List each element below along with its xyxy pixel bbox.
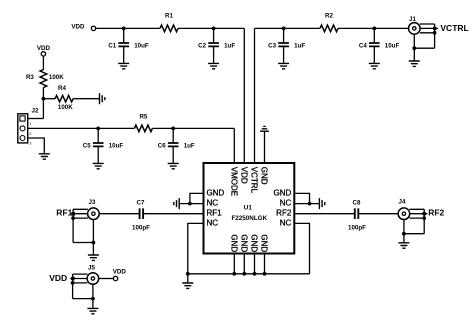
junction	[96, 126, 100, 130]
capacitor C6	[168, 128, 179, 163]
wire VMODE rail right	[152, 127, 234, 129]
junction at J4 shield lower	[422, 216, 426, 220]
svg-text:NC: NC	[280, 199, 292, 208]
ground at C4	[369, 63, 380, 68]
node VDD terminal (above R3)	[41, 52, 45, 56]
junction	[263, 272, 267, 276]
junction	[308, 202, 312, 206]
svg-text:100pF: 100pF	[132, 224, 150, 231]
svg-text:1uF: 1uF	[184, 143, 195, 150]
connector J1 body	[409, 23, 421, 35]
ground at J1	[409, 61, 420, 66]
wire	[42, 56, 44, 69]
svg-text:RF2: RF2	[276, 209, 292, 218]
svg-text:RF1: RF1	[56, 207, 72, 217]
junction	[212, 27, 216, 31]
svg-text:C6: C6	[158, 143, 166, 150]
svg-text:10uF: 10uF	[109, 143, 124, 150]
capacitor C4	[369, 28, 380, 63]
connector J4 body	[398, 208, 410, 220]
junction at J4 ground stem	[402, 232, 406, 236]
connector J1 port arrow	[434, 26, 439, 30]
svg-text:R5: R5	[139, 114, 147, 121]
junction	[242, 272, 246, 276]
svg-text:VDD: VDD	[49, 273, 67, 283]
wire	[42, 88, 44, 119]
svg-text:R1: R1	[165, 13, 173, 20]
svg-text:NC: NC	[280, 218, 292, 227]
ground at U1 top GND pin	[260, 126, 269, 131]
ground at J5	[87, 308, 98, 313]
node VDD terminal (at J5)	[113, 276, 117, 280]
junction	[186, 272, 190, 276]
ground at J2	[39, 154, 50, 159]
svg-text:C7: C7	[137, 199, 145, 206]
svg-text:C5: C5	[83, 143, 91, 150]
connector J3 body	[88, 208, 100, 220]
svg-text:J5: J5	[88, 265, 95, 272]
svg-text:GND: GND	[239, 234, 248, 252]
wire U1 top GND pin	[264, 131, 266, 163]
svg-text:10uF: 10uF	[134, 43, 149, 50]
wire	[43, 98, 55, 100]
svg-text:VDD: VDD	[71, 24, 85, 31]
svg-text:R3: R3	[26, 74, 34, 81]
ground at bus	[182, 283, 193, 288]
svg-text:100K: 100K	[49, 74, 64, 81]
wire U1 right NC to bus	[294, 223, 309, 273]
connector J4 shield lines	[404, 209, 424, 243]
connector J3 shield lines	[73, 209, 93, 255]
capacitor C1	[118, 28, 129, 63]
wire	[178, 27, 244, 29]
junction at J3 ground stem	[92, 241, 96, 245]
svg-text:GND: GND	[274, 188, 292, 197]
svg-text:RF1: RF1	[207, 209, 223, 218]
resistor R1	[160, 25, 178, 32]
svg-text:C8: C8	[353, 199, 361, 206]
resistor R2	[320, 25, 338, 32]
junction at J3 shield	[71, 212, 75, 216]
connector J1 shield lines	[414, 24, 434, 61]
ground at J4	[398, 243, 409, 248]
capacitor C8	[355, 208, 359, 219]
svg-text:C3: C3	[268, 43, 276, 50]
junction	[171, 126, 175, 130]
svg-text:C2: C2	[198, 43, 206, 50]
svg-text:NC: NC	[207, 199, 219, 208]
connector J4 port arrow	[424, 212, 429, 216]
connector J5 shield lines	[73, 274, 93, 308]
svg-text:J3: J3	[89, 199, 96, 206]
ground at R4	[100, 93, 105, 104]
junction	[122, 27, 126, 31]
svg-text:1uF: 1uF	[294, 43, 305, 50]
svg-text:GND: GND	[260, 167, 269, 185]
junction	[232, 272, 236, 276]
wire to U1 VMODE pin	[233, 128, 235, 163]
svg-text:100K: 100K	[58, 104, 73, 111]
wire to U1 VCTRL pin	[254, 28, 256, 163]
svg-text:10uF: 10uF	[385, 43, 400, 50]
capacitor C3	[278, 28, 289, 63]
junction	[372, 27, 376, 31]
resistor R5	[134, 125, 152, 132]
wire U1 bottom GND pin	[264, 254, 266, 274]
svg-text:1uF: 1uF	[224, 43, 235, 50]
junction at J5 shield	[71, 277, 75, 281]
resistor R3	[40, 70, 47, 88]
junction at J3 shield lower	[71, 216, 75, 220]
svg-text:J4: J4	[399, 198, 406, 205]
wire	[358, 213, 398, 215]
svg-text:VCTRL: VCTRL	[250, 167, 259, 194]
svg-text:R2: R2	[325, 13, 333, 20]
wire U1 bottom GND pin	[254, 254, 256, 274]
svg-text:VCTRL: VCTRL	[440, 23, 468, 33]
connector J3 port arrow	[71, 212, 75, 216]
ground at U1 left	[174, 198, 179, 209]
junction	[42, 97, 46, 101]
node VDD terminal (top left)	[91, 26, 95, 30]
wire	[294, 213, 355, 215]
wire	[255, 27, 321, 29]
wire J2 pin3 to ground	[28, 138, 45, 154]
wire U1 bottom GND pin	[243, 254, 245, 274]
svg-text:C4: C4	[359, 43, 367, 50]
ground at U1 right	[319, 198, 324, 209]
wire U1 left GND pin	[190, 193, 204, 203]
svg-text:100pF: 100pF	[348, 224, 366, 231]
wire U1 left NC pin to ground	[179, 203, 203, 205]
junction at J1 shield lower	[433, 31, 437, 35]
svg-text:VMODE: VMODE	[229, 167, 238, 196]
wire U1 left NC to bus	[188, 223, 204, 273]
ground at C5	[93, 163, 104, 168]
pin numbers J2	[29, 121, 32, 145]
junction at J1 shield	[433, 27, 437, 31]
wire to U1 VDD pin	[243, 28, 245, 163]
svg-text:C1: C1	[108, 43, 116, 50]
svg-text:J1: J1	[409, 16, 416, 23]
connector J5 port arrow	[70, 276, 74, 280]
wire	[338, 27, 409, 29]
svg-text:F2250NLGK: F2250NLGK	[231, 215, 267, 222]
junction at J5 ground stem	[91, 297, 95, 301]
svg-text:GND: GND	[260, 234, 269, 252]
junction	[188, 202, 192, 206]
ground at C6	[168, 163, 179, 168]
ground at C2	[208, 63, 219, 68]
wire J2 pin1	[28, 118, 44, 120]
op-amp U1 F2250NLGK body	[204, 163, 295, 254]
svg-text:U1: U1	[244, 205, 253, 212]
svg-text:GND: GND	[250, 234, 259, 252]
wire ground bus	[188, 273, 310, 275]
svg-text:J2: J2	[32, 108, 39, 115]
connector J5 body	[87, 273, 99, 285]
resistor R4	[55, 95, 73, 102]
svg-text:GND: GND	[229, 234, 238, 252]
svg-text:NC: NC	[207, 218, 219, 227]
wire U1 right GND pin	[294, 193, 309, 203]
wire	[99, 278, 114, 280]
wire	[143, 213, 203, 215]
ground at J3	[88, 255, 99, 260]
ground at C3	[278, 63, 289, 68]
junction	[282, 27, 286, 31]
ground at C1	[118, 63, 129, 68]
svg-text:VDD: VDD	[37, 45, 51, 52]
svg-text:VDD: VDD	[239, 167, 248, 184]
svg-text:GND: GND	[207, 188, 225, 197]
junction	[253, 272, 257, 276]
svg-text:VDD: VDD	[113, 269, 127, 276]
connector J2 body	[18, 114, 28, 143]
wire bus to ground	[187, 274, 189, 283]
svg-text:R4: R4	[58, 85, 66, 92]
capacitor C5	[93, 128, 104, 163]
wire	[73, 98, 99, 100]
junction at J5 shield lower	[71, 281, 75, 285]
wire U1 right NC pin to ground	[294, 203, 319, 205]
wire	[99, 213, 139, 215]
capacitor C2	[208, 28, 219, 63]
junction at J1 ground stem	[412, 46, 416, 50]
svg-text:RF2: RF2	[428, 208, 444, 218]
junction at J4 shield	[422, 212, 426, 216]
wire	[96, 27, 160, 29]
wire U1 bottom GND pin	[233, 254, 235, 274]
wire VMODE rail	[28, 127, 135, 129]
capacitor C7	[140, 208, 144, 219]
